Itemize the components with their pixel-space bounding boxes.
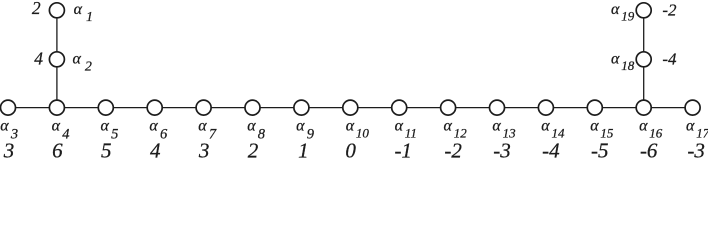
svg-text:2: 2 xyxy=(32,0,41,18)
svg-text:α1: α1 xyxy=(74,1,93,25)
svg-text:3: 3 xyxy=(3,139,15,162)
node alpha7 xyxy=(196,100,211,115)
svg-text:α11: α11 xyxy=(395,118,417,141)
node alpha11 xyxy=(392,100,407,115)
node alpha16 xyxy=(636,100,651,115)
node alpha2 xyxy=(49,52,64,67)
svg-text:α16: α16 xyxy=(639,118,663,141)
svg-text:α10: α10 xyxy=(346,118,370,141)
node alpha14 xyxy=(538,100,553,115)
wire right branch xyxy=(643,10,645,107)
svg-text:-2: -2 xyxy=(444,139,462,162)
node alpha6 xyxy=(147,100,162,115)
svg-text:4: 4 xyxy=(150,139,161,162)
svg-text:α17: α17 xyxy=(686,118,708,141)
node alpha3 xyxy=(1,100,16,115)
svg-text:-6: -6 xyxy=(640,139,658,162)
svg-text:α15: α15 xyxy=(590,118,614,141)
node alpha15 xyxy=(587,100,602,115)
node alpha8 xyxy=(245,100,260,115)
node alpha18 xyxy=(636,52,651,67)
svg-text:1: 1 xyxy=(298,139,309,162)
svg-text:α2: α2 xyxy=(73,50,92,74)
svg-text:3: 3 xyxy=(198,139,210,162)
svg-text:2: 2 xyxy=(248,139,259,162)
svg-text:α13: α13 xyxy=(492,118,516,141)
svg-text:-4: -4 xyxy=(662,50,677,69)
svg-text:-3: -3 xyxy=(687,139,705,162)
node alpha5 xyxy=(98,100,113,115)
svg-text:α12: α12 xyxy=(444,118,468,141)
svg-text:α19: α19 xyxy=(611,1,635,24)
svg-text:4: 4 xyxy=(34,48,43,68)
node alpha19 xyxy=(636,3,651,18)
svg-text:-1: -1 xyxy=(394,139,412,162)
node alpha10 xyxy=(343,100,358,115)
svg-text:5: 5 xyxy=(101,139,112,162)
svg-text:0: 0 xyxy=(345,139,356,162)
node alpha9 xyxy=(294,100,309,115)
node alpha1 xyxy=(49,3,64,18)
svg-text:α18: α18 xyxy=(611,51,635,74)
node alpha17 xyxy=(685,100,700,115)
svg-text:-3: -3 xyxy=(493,139,511,162)
node alpha13 xyxy=(490,100,505,115)
svg-text:-2: -2 xyxy=(662,1,677,20)
wire horizontal chain xyxy=(8,107,693,109)
svg-text:α14: α14 xyxy=(541,118,565,141)
svg-text:-5: -5 xyxy=(591,139,609,162)
node alpha12 xyxy=(441,100,456,115)
node alpha4 xyxy=(49,100,64,115)
svg-text:6: 6 xyxy=(52,139,63,162)
svg-text:-4: -4 xyxy=(542,139,560,162)
wire left branch xyxy=(56,10,58,107)
